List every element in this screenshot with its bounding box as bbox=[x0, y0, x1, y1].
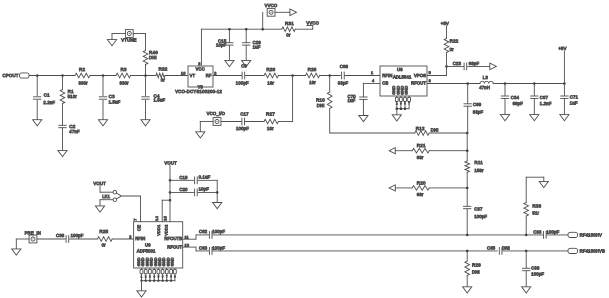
svg-text:PRE_IN: PRE_IN bbox=[25, 230, 41, 235]
svg-text:10: 10 bbox=[185, 243, 190, 247]
resistor R28 bbox=[306, 73, 320, 78]
ground at VCO_I/O bbox=[196, 132, 205, 138]
svg-text:0r: 0r bbox=[102, 243, 107, 248]
svg-text:5: 5 bbox=[429, 71, 431, 75]
svg-text:ADF5001: ADF5001 bbox=[137, 249, 156, 254]
junction C37 on HV line bbox=[466, 234, 469, 237]
svg-text:68r: 68r bbox=[417, 155, 424, 160]
svg-text:VCO_I/O: VCO_I/O bbox=[207, 111, 226, 116]
svg-text:15: 15 bbox=[163, 216, 168, 221]
wire R28 to C68 bbox=[320, 75, 341, 77]
jumper LK1 bbox=[99, 186, 101, 192]
svg-text:330r: 330r bbox=[120, 80, 130, 85]
svg-text:VOUT: VOUT bbox=[93, 181, 106, 186]
ground under R29 bbox=[463, 287, 472, 293]
svg-text:18r: 18r bbox=[309, 80, 316, 85]
resistor R11 bbox=[466, 151, 468, 161]
svg-text:0.1uF: 0.1uF bbox=[199, 174, 211, 179]
wire R10 to R12 bbox=[329, 109, 331, 134]
resistor R31 bbox=[282, 27, 296, 32]
svg-text:2: 2 bbox=[214, 72, 216, 76]
svg-text:C71: C71 bbox=[570, 94, 579, 99]
svg-text:4: 4 bbox=[372, 79, 374, 83]
wire PRE_IN to ground bbox=[16, 238, 29, 240]
resistor R46 DNI bbox=[143, 51, 148, 65]
svg-text:0r: 0r bbox=[161, 78, 166, 83]
connector RF4150HVB bbox=[568, 248, 578, 253]
svg-text:CE: CE bbox=[137, 225, 142, 231]
ground under C70 bbox=[359, 116, 368, 122]
svg-text:+5V: +5V bbox=[558, 46, 566, 51]
svg-text:VCC: VCC bbox=[196, 67, 205, 72]
wire C19 C20 to ground bbox=[216, 180, 218, 202]
connector RF4150HV bbox=[568, 232, 578, 237]
capacitor C70 bbox=[360, 96, 367, 98]
svg-text:C23: C23 bbox=[453, 61, 462, 66]
wire RFOUT pin 10 bbox=[183, 246, 196, 248]
capacitor C15 bbox=[228, 29, 230, 42]
svg-text:33pF: 33pF bbox=[338, 81, 349, 86]
svg-text:GND: GND bbox=[404, 86, 409, 95]
svg-text:6: 6 bbox=[198, 62, 200, 66]
capacitor C34 bbox=[504, 84, 506, 96]
capacitor C67 bbox=[533, 84, 535, 96]
capacitor C3 bbox=[102, 76, 104, 96]
wire LK1 lower contact to ground bbox=[100, 199, 113, 201]
capacitor C1 bbox=[36, 76, 38, 96]
svg-text:1uF: 1uF bbox=[253, 44, 261, 49]
testpoint arrow after C23 bbox=[490, 63, 497, 70]
resistor R21 bbox=[395, 150, 412, 152]
svg-text:47nH: 47nH bbox=[479, 85, 490, 90]
wire RFOUTB pin 11 bbox=[183, 238, 196, 240]
resistor R2 bbox=[75, 73, 90, 78]
svg-text:33pF: 33pF bbox=[473, 109, 484, 114]
svg-text:C36: C36 bbox=[56, 233, 65, 238]
svg-text:C3: C3 bbox=[109, 94, 115, 99]
ground under C15 bbox=[225, 60, 234, 66]
svg-text:CB: CB bbox=[382, 81, 388, 86]
svg-text:18r: 18r bbox=[267, 126, 274, 131]
svg-text:R3: R3 bbox=[121, 67, 127, 72]
svg-text:7: 7 bbox=[133, 218, 138, 220]
resistor R22 bbox=[444, 38, 449, 52]
svg-text:RF4150HV: RF4150HV bbox=[580, 233, 602, 238]
wire R32 to VCO pin 10 bbox=[165, 75, 188, 77]
svg-text:VT: VT bbox=[190, 73, 196, 78]
svg-text:100pF: 100pF bbox=[212, 229, 225, 234]
capacitor C23 to testpoint bbox=[447, 65, 464, 67]
prescaler U9 ADF5001 bbox=[134, 222, 183, 268]
svg-text:C69: C69 bbox=[473, 102, 482, 107]
capacitor C38 bbox=[525, 250, 528, 253]
capacitor C35 DNI bbox=[498, 248, 500, 255]
ground under C67 bbox=[530, 115, 539, 121]
ground under C4 bbox=[141, 120, 150, 126]
wire RFOUT pin 8 to L3 bbox=[427, 83, 480, 85]
resistor R10 DNI bbox=[329, 76, 331, 93]
ground under U9 bbox=[137, 291, 146, 297]
svg-text:1.5nF: 1.5nF bbox=[154, 98, 166, 103]
svg-text:1uF: 1uF bbox=[348, 98, 356, 103]
svg-text:C38: C38 bbox=[531, 266, 540, 271]
capacitor C2 bbox=[62, 104, 64, 126]
svg-text:1uF: 1uF bbox=[570, 101, 578, 106]
svg-text:VDD2: VDD2 bbox=[163, 225, 168, 236]
svg-text:8: 8 bbox=[429, 79, 431, 83]
svg-text:68pF: 68pF bbox=[513, 101, 524, 106]
ground at R33 bbox=[539, 181, 548, 187]
svg-text:C17: C17 bbox=[240, 111, 249, 116]
wire VTUNE to ground bbox=[112, 33, 125, 35]
svg-text:DNI: DNI bbox=[317, 103, 325, 108]
testpoint arrow at VVCO bbox=[275, 11, 290, 13]
svg-text:C62: C62 bbox=[199, 229, 208, 234]
svg-text:158r: 158r bbox=[474, 168, 484, 173]
capacitor C20 bbox=[170, 191, 194, 193]
svg-text:RF4150HVB: RF4150HVB bbox=[580, 249, 606, 254]
capacitor C68 bbox=[341, 72, 343, 79]
svg-text:0r: 0r bbox=[450, 47, 455, 52]
svg-text:18r: 18r bbox=[267, 80, 274, 85]
svg-text:1.5nF: 1.5nF bbox=[109, 99, 121, 104]
inductor L3 bbox=[480, 81, 493, 83]
resistor R12 DNI bbox=[415, 131, 429, 136]
svg-text:R10: R10 bbox=[316, 97, 325, 102]
ground under C38 bbox=[522, 287, 531, 293]
VCO module Y3 bbox=[188, 66, 213, 87]
svg-text:100pF: 100pF bbox=[236, 81, 249, 86]
svg-text:DNI: DNI bbox=[502, 246, 510, 251]
wire R2 to R3 bbox=[90, 75, 116, 77]
ground under C2 bbox=[58, 150, 67, 156]
capacitor C17 bbox=[245, 121, 264, 123]
svg-text:510r: 510r bbox=[68, 94, 78, 99]
svg-text:VOUT: VOUT bbox=[164, 160, 177, 165]
ground at LK1 bbox=[95, 206, 104, 212]
svg-text:2: 2 bbox=[129, 235, 131, 239]
svg-text:R27: R27 bbox=[266, 111, 275, 116]
svg-text:VPOS: VPOS bbox=[414, 73, 426, 78]
svg-text:C33: C33 bbox=[533, 229, 542, 234]
svg-text:1: 1 bbox=[371, 71, 373, 75]
ground under C71 bbox=[560, 115, 569, 121]
svg-text:R26: R26 bbox=[266, 67, 275, 72]
svg-text:R22: R22 bbox=[450, 39, 459, 44]
resistor R29 DNI bbox=[466, 250, 469, 253]
svg-text:R21: R21 bbox=[417, 143, 426, 148]
svg-text:68pF: 68pF bbox=[469, 61, 480, 66]
U9 bottom GND pins bbox=[140, 269, 143, 273]
svg-text:RFIN: RFIN bbox=[382, 73, 392, 78]
svg-text:C68: C68 bbox=[340, 64, 349, 69]
svg-text:DNI: DNI bbox=[149, 55, 157, 60]
svg-text:100pF: 100pF bbox=[546, 229, 559, 234]
wire LK1 to CE pin 7 bbox=[121, 195, 141, 197]
wire VDD pins 14 15 bbox=[162, 199, 170, 201]
ground at VTUNE bbox=[107, 40, 116, 46]
svg-text:C20: C20 bbox=[179, 187, 188, 192]
svg-text:GND: GND bbox=[169, 257, 174, 266]
amplifier U8 ADL5541 bbox=[380, 66, 427, 96]
svg-text:R25: R25 bbox=[99, 229, 108, 234]
ground under C34 bbox=[500, 115, 509, 121]
svg-text:C6: C6 bbox=[241, 63, 247, 68]
ground under C1 bbox=[33, 120, 42, 126]
wire main line CPOUT to R2 bbox=[29, 75, 75, 77]
capacitor C63 bbox=[208, 248, 210, 255]
svg-text:R33: R33 bbox=[532, 204, 541, 209]
testpoint arrow R20 bbox=[389, 185, 395, 191]
svg-text:C67: C67 bbox=[540, 95, 549, 100]
svg-text:RFOUT: RFOUT bbox=[411, 81, 426, 86]
wire VCC rail bbox=[201, 28, 281, 30]
ground under C3 bbox=[98, 120, 107, 126]
svg-text:10pF: 10pF bbox=[199, 187, 210, 192]
connector VVCO bbox=[262, 12, 264, 29]
wire R26 to R28 bbox=[278, 75, 305, 77]
wire CB pin 4 to C70 bbox=[363, 82, 380, 84]
svg-text:DNI: DNI bbox=[472, 269, 480, 274]
svg-text:VVCO: VVCO bbox=[265, 3, 278, 8]
svg-text:C1: C1 bbox=[44, 93, 50, 98]
svg-text:VCO-DCYS100200-12: VCO-DCYS100200-12 bbox=[175, 89, 222, 94]
resistor R3 bbox=[116, 73, 130, 78]
wire L3 to +5V node bbox=[493, 83, 564, 85]
ground under U8 bbox=[392, 115, 401, 121]
svg-text:R2: R2 bbox=[79, 67, 85, 72]
resistor R26 bbox=[264, 73, 278, 78]
svg-text:51r: 51r bbox=[532, 210, 539, 215]
wire R12 to node column bbox=[429, 132, 467, 134]
resistor R25 bbox=[98, 237, 113, 242]
wire VCO_I/O to ground bbox=[200, 121, 213, 123]
svg-text:R20: R20 bbox=[417, 180, 426, 185]
net label VVCO right bbox=[295, 28, 312, 30]
svg-text:C63: C63 bbox=[199, 246, 208, 251]
svg-text:1.2nF: 1.2nF bbox=[540, 101, 552, 106]
svg-text:C34: C34 bbox=[511, 95, 520, 100]
svg-text:C35: C35 bbox=[487, 246, 496, 251]
svg-text:R28: R28 bbox=[308, 67, 317, 72]
resistor R32 bbox=[156, 73, 165, 78]
svg-text:10pF: 10pF bbox=[216, 43, 227, 48]
svg-text:100pF: 100pF bbox=[236, 126, 249, 131]
svg-text:RFIN: RFIN bbox=[135, 236, 145, 241]
svg-text:VTUNE: VTUNE bbox=[121, 38, 136, 43]
wire R20 to column bbox=[429, 187, 467, 189]
capacitor C62 bbox=[208, 232, 210, 239]
capacitor C37 bbox=[466, 188, 468, 206]
svg-text:100pF: 100pF bbox=[474, 214, 487, 219]
svg-text:330r: 330r bbox=[79, 80, 89, 85]
ground at PRE_IN bbox=[12, 249, 21, 255]
capacitor C4 bbox=[145, 76, 147, 96]
svg-text:47nF: 47nF bbox=[69, 129, 80, 134]
capacitor C71 bbox=[563, 84, 565, 96]
resistor R1 bbox=[62, 76, 64, 90]
svg-text:VDD1: VDD1 bbox=[156, 225, 161, 236]
capacitor C6 bbox=[213, 75, 241, 77]
svg-text:VVCO: VVCO bbox=[306, 21, 319, 26]
wire R21 to column bbox=[429, 150, 467, 152]
resistor R33 bbox=[525, 216, 527, 235]
wire VCC pin 6 bbox=[200, 29, 202, 66]
svg-text:CPOUT: CPOUT bbox=[3, 73, 19, 78]
ground at C19 C20 bbox=[213, 203, 222, 209]
U8 GND pins to ground bbox=[395, 97, 398, 101]
svg-text:11: 11 bbox=[185, 235, 189, 239]
capacitor C36 bbox=[37, 238, 65, 240]
svg-text:+5V: +5V bbox=[441, 21, 449, 26]
svg-text:C19: C19 bbox=[179, 175, 188, 180]
wire junction to VCO_I/O row bbox=[292, 76, 294, 122]
svg-text:RFOUT: RFOUT bbox=[167, 244, 182, 249]
svg-text:68r: 68r bbox=[417, 192, 424, 197]
svg-text:L3: L3 bbox=[483, 75, 489, 80]
resistor R27 bbox=[278, 121, 292, 123]
svg-text:U9: U9 bbox=[145, 242, 151, 247]
wire VOUT rail bbox=[169, 166, 171, 201]
wire VTUNE to R46 bbox=[133, 33, 145, 35]
svg-text:14: 14 bbox=[154, 215, 159, 220]
wire R3 to R32 bbox=[131, 75, 157, 77]
svg-text:100pF: 100pF bbox=[531, 271, 544, 276]
svg-text:2.2nF: 2.2nF bbox=[43, 100, 55, 105]
svg-text:R31: R31 bbox=[285, 21, 294, 26]
svg-text:DNI: DNI bbox=[431, 127, 439, 132]
svg-text:U8: U8 bbox=[397, 67, 403, 72]
capacitor C69 bbox=[467, 84, 469, 104]
svg-text:RFOUTB: RFOUTB bbox=[164, 236, 182, 241]
svg-text:R29: R29 bbox=[472, 263, 481, 268]
svg-text:R12: R12 bbox=[416, 126, 425, 131]
wire R33 to ground bbox=[526, 176, 544, 178]
wire column C69 to R21 node bbox=[466, 133, 468, 151]
svg-text:RF: RF bbox=[206, 73, 212, 78]
junction R33 on HV line bbox=[525, 234, 528, 237]
svg-text:R32: R32 bbox=[159, 66, 168, 71]
svg-text:100pF: 100pF bbox=[212, 246, 225, 251]
svg-text:10: 10 bbox=[181, 72, 186, 76]
wire VPOS pin 5 bbox=[427, 75, 447, 77]
svg-text:0r: 0r bbox=[286, 32, 291, 37]
svg-text:100pF: 100pF bbox=[71, 233, 84, 238]
ground under C29 bbox=[242, 60, 251, 66]
svg-text:ADL5541: ADL5541 bbox=[393, 75, 412, 80]
capacitor C29 bbox=[245, 29, 247, 42]
resistor R20 bbox=[395, 187, 412, 189]
testpoint arrow R21 bbox=[389, 148, 395, 154]
wire R25 to U9 pin 2 bbox=[112, 238, 133, 240]
svg-text:C37: C37 bbox=[474, 206, 483, 211]
capacitor C19 bbox=[170, 179, 194, 181]
svg-text:LK1: LK1 bbox=[102, 194, 110, 199]
svg-text:R11: R11 bbox=[474, 160, 483, 165]
